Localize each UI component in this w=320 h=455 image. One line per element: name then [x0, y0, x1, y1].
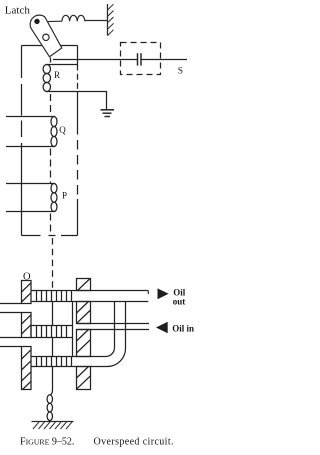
label Oil out — [173, 288, 186, 307]
label S — [178, 66, 183, 76]
valve return spring — [47, 395, 52, 421]
frame bottom edge wire — [22, 235, 78, 237]
coil R — [43, 65, 50, 92]
caption Figure 9-52 Overspeed circuit — [20, 437, 174, 448]
label O — [23, 272, 31, 283]
wire coil P top — [6, 183, 55, 185]
frame top edge wire — [22, 45, 78, 47]
wire coil Q bottom — [6, 146, 55, 148]
svg-text:P: P — [62, 191, 67, 201]
mechanical link coil P to frame bottom (dashed) — [50, 214, 52, 235]
svg-text:Oil in: Oil in — [172, 323, 194, 333]
frame left edge wire (dashed parts) — [21, 46, 23, 236]
spool land bar 1 (ladder) — [31, 291, 148, 302]
svg-text:FIGURE 9–52.: FIGURE 9–52. — [20, 437, 74, 448]
mechanical link coil R to coil Q (dashed) — [50, 94, 52, 116]
elbow pipe into valve — [91, 348, 126, 367]
wire coil P bottom — [6, 211, 55, 213]
latch hole — [43, 34, 49, 40]
spool land bar 3 (ladder) — [31, 357, 91, 367]
mechanical link latch to coil R (dashed) — [50, 58, 52, 64]
left port channel 2 wires — [0, 338, 22, 347]
svg-text:out: out — [173, 297, 186, 307]
spool land bar 2 (ladder) — [31, 326, 73, 338]
valve left wall block 1 (hatched) — [22, 281, 32, 304]
label P — [62, 191, 67, 201]
wire coil R top — [46, 64, 78, 66]
label R — [54, 70, 60, 80]
label Q — [59, 125, 66, 135]
latch body — [30, 15, 62, 57]
ground floor (hatched) — [32, 422, 74, 430]
spring to wall anchor — [37, 15, 108, 22]
oil out arrow — [158, 288, 169, 299]
spool stem upper (rods) — [53, 302, 73, 326]
wire coil Q top — [6, 116, 55, 118]
valve left wall block 3 (hatched) — [22, 347, 32, 390]
valve right wall block 1 (hatched) — [77, 279, 91, 291]
ground — [101, 110, 115, 117]
switch S contacts — [138, 53, 142, 65]
latch pivot (filled dot) — [34, 19, 39, 24]
spool stem lower (rods) — [53, 338, 73, 357]
valve left wall block 2 (hatched) — [22, 313, 32, 338]
label Oil in — [172, 323, 194, 333]
svg-text:R: R — [54, 70, 60, 80]
valve right wall block 2 (hatched) — [77, 302, 91, 324]
label Latch — [5, 4, 31, 16]
svg-text:Latch: Latch — [5, 4, 31, 16]
oil in arrow — [156, 322, 168, 334]
wire switch to S terminal — [142, 59, 188, 61]
switch S dashed box — [121, 43, 161, 75]
bypass pipe vertical (oil out to elbow) — [115, 302, 126, 349]
svg-text:Q: Q — [59, 125, 66, 135]
wire coil R bottom to ground — [46, 92, 107, 110]
valve spool rod — [50, 367, 53, 395]
wire latch to switch S — [53, 59, 137, 61]
coil P — [51, 184, 57, 212]
oil in channel wires — [77, 324, 150, 330]
coil Q — [51, 117, 57, 147]
svg-text:Overspeed circuit.: Overspeed circuit. — [94, 437, 174, 448]
mechanical link coil Q to coil P (dashed) — [50, 149, 52, 184]
frame right edge wire (mixed solid/dash) — [77, 46, 79, 236]
wall anchor (hatched) — [108, 4, 114, 36]
valve right wall block 4 (hatched) — [77, 367, 91, 390]
valve right wall block 3 (hatched) — [77, 330, 91, 357]
oil out channel end tick — [147, 291, 149, 295]
left port channel 1 wires — [0, 304, 22, 313]
mechanical link frame to valve spool (dashed) — [52, 238, 54, 291]
svg-text:S: S — [178, 66, 183, 76]
